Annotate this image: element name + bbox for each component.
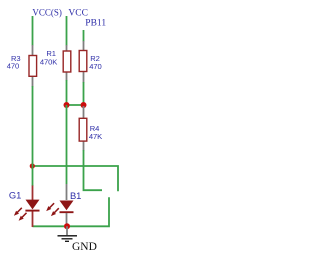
wire: R2 bottom to junction [83, 82, 85, 105]
junction dot left (R1 net) [64, 102, 70, 108]
wire: VCC vertical to R1 [66, 16, 68, 46]
junction dot GND node [64, 223, 70, 229]
junction dot right (R2/R4 net) [81, 102, 87, 108]
pin: R4 bottom [83, 141, 85, 151]
pin: R1 top [66, 45, 68, 51]
LED G1 cathode bar [25, 210, 39, 212]
wire: right vertical stub to bottom [67, 197, 109, 226]
pin: R2 top [83, 41, 85, 51]
resistor R2 body [79, 51, 87, 72]
pin: R1 bottom [66, 72, 68, 81]
wire: junction horizontal R1-R2 [67, 104, 84, 106]
pin: R2 bottom [83, 71, 85, 83]
junction dot G1 anode [30, 163, 35, 168]
pin: R3 bottom [32, 76, 34, 87]
wire: R4 bottom down and right stub [84, 150, 103, 190]
LED G1 triangle [26, 200, 40, 210]
LED B1 triangle [60, 201, 74, 211]
pin: R4 top [83, 106, 85, 119]
svg-text:470K: 470K [40, 57, 57, 66]
LED B1 light arrow 2 [51, 208, 59, 216]
wire: PB11 vertical to R2 [83, 30, 85, 42]
svg-text:G1: G1 [9, 190, 21, 201]
LED G1 light arrow 1 [14, 208, 22, 216]
wire: VCC(S) vertical to R3 [32, 16, 34, 46]
svg-text:B1: B1 [70, 190, 81, 201]
svg-text:VCC: VCC [68, 9, 88, 19]
resistor R3 body [29, 56, 37, 77]
svg-text:470: 470 [7, 62, 19, 71]
LED G1 light arrow 2 [19, 213, 27, 221]
ground stub [66, 226, 68, 235]
wire: VCC(S) net R3 to G1 [32, 86, 34, 186]
svg-text:VCC(S): VCC(S) [32, 7, 62, 17]
resistor R1 body [63, 51, 71, 72]
LED B1 cathode pin [66, 213, 68, 227]
LED G1 anode pin [32, 186, 34, 201]
wire: R1 bottom to junction [66, 80, 68, 105]
svg-text:PB11: PB11 [85, 19, 106, 29]
wire: R1 net down to B1 [66, 105, 68, 184]
svg-text:47K: 47K [89, 132, 102, 141]
LED G1 cathode pin [32, 212, 34, 228]
wire: bottom horizontal G1 to GND node [33, 225, 68, 227]
ground symbol [58, 236, 78, 242]
LED B1 cathode bar [60, 211, 74, 213]
svg-text:GND: GND [72, 241, 97, 253]
wire: G1 anode junction horizontal to right vertical [33, 166, 119, 191]
resistor R4 body [79, 118, 87, 141]
pin: R3 top [32, 45, 34, 56]
svg-text:470: 470 [89, 62, 101, 71]
LED B1 light arrow 1 [46, 203, 54, 211]
LED B1 anode pin [66, 184, 68, 200]
